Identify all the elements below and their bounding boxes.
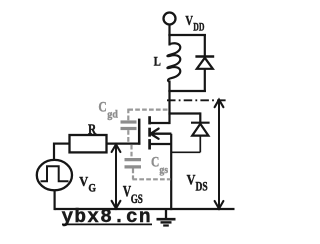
label VG	[79, 175, 96, 195]
svg-text:V: V	[79, 175, 88, 190]
wire source bottom stub	[53, 190, 55, 211]
svg-text:C: C	[98, 99, 106, 115]
wire source vertical	[170, 134, 172, 210]
wire bottom rail of L/D loop	[168, 90, 206, 92]
svg-text:C: C	[151, 154, 159, 170]
wire inductor bottom stub	[168, 81, 170, 93]
wire resistor left	[54, 143, 70, 145]
watermark ybx8.cn	[62, 206, 153, 228]
wire body-diode top tap	[168, 112, 200, 123]
capacitor Cgd	[121, 122, 137, 129]
svg-text:V: V	[185, 14, 193, 29]
terminal VDD	[164, 13, 176, 37]
svg-text:DD: DD	[193, 20, 204, 34]
transistor Q1 channel segments	[148, 116, 151, 149]
transistor Q1 source lead	[150, 143, 172, 145]
wire bottom rail	[55, 208, 235, 210]
wire top rail	[168, 34, 206, 36]
svg-text:R: R	[88, 122, 96, 138]
svg-text:DS: DS	[196, 179, 208, 193]
diode D1 freewheel	[195, 57, 214, 69]
diode D2 body diode	[191, 123, 210, 136]
wire diode branch top	[204, 34, 206, 57]
transistor Q1 gate bar	[138, 119, 141, 145]
wire gate	[106, 143, 140, 145]
wire drain line	[168, 90, 170, 124]
capacitor Cgs	[125, 160, 142, 167]
label VGS	[123, 183, 143, 206]
ground	[157, 209, 176, 226]
wire Cgs dashed to source	[132, 145, 171, 180]
transistor Q1 MOSFET drain lead	[150, 122, 170, 124]
measure arrow VGS	[112, 144, 121, 208]
source VG pulse generator	[37, 160, 72, 190]
svg-text:V: V	[187, 172, 196, 188]
label VDS	[187, 172, 208, 193]
label VDD	[185, 14, 204, 34]
svg-text:G: G	[88, 183, 96, 195]
label Cgd	[98, 99, 117, 120]
wire body-diode bottom link	[171, 136, 200, 153]
svg-text:gd: gd	[107, 108, 118, 120]
svg-text:gs: gs	[159, 164, 168, 176]
wire diode branch bottom	[204, 69, 206, 92]
svg-text:GS: GS	[131, 192, 143, 206]
transistor Q1 body arrow lead	[151, 129, 172, 139]
wire left vertical to source	[53, 143, 55, 162]
label Cgs	[151, 154, 169, 176]
svg-text:L: L	[154, 54, 161, 69]
wire inductor top stub	[168, 34, 170, 46]
measure arrow VDS	[215, 100, 224, 209]
node drain dash-dot reference line	[167, 99, 229, 101]
wire Cgd dashed to drain	[128, 109, 168, 143]
inductor L	[167, 43, 180, 81]
resistor R	[70, 135, 107, 152]
